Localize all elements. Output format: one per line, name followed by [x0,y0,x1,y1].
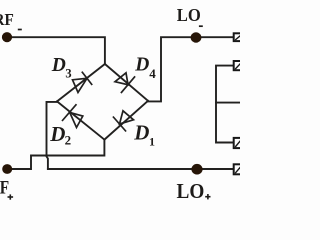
diode D3 (upper-left edge) [73,72,93,93]
wire RF- : dot to corner to diamond top vertex [7,37,105,64]
wire: left vertex stub down across to bottom wire [47,102,58,169]
wire: IF bracket to box2 and box3 [216,66,234,143]
diode D4 (upper-right edge) [115,73,135,93]
terminal box 4 (bottom right) [234,164,244,174]
terminal box 1 (top right) [234,33,244,41]
terminal box 3 [234,138,244,148]
svg-text:F: F [0,178,9,199]
svg-text:D: D [134,54,149,75]
svg-text:1: 1 [149,134,155,148]
svg-text:LO: LO [177,5,201,25]
svg-text:2: 2 [65,133,72,148]
wire: diamond edge upper-left [57,64,105,101]
svg-text:D: D [133,120,149,144]
node RF+ [2,164,12,174]
svg-text:3: 3 [65,67,71,81]
diode D2 (lower-left edge) [62,104,83,127]
node LO+ [191,164,202,175]
wire: diamond edge lower-left [57,101,104,139]
svg-text:D: D [49,122,65,146]
wire RF+ : dot, step up, across, down-feed to diamond bottom vertex [7,140,104,169]
wire: diamond edge upper-right [105,64,148,101]
diode D1 (lower-right edge) [113,111,134,132]
wire: bottom LO+ line [48,168,234,170]
svg-text:LO: LO [177,179,205,200]
node LO- [191,32,202,42]
svg-text:RF: RF [0,10,14,29]
svg-text:D: D [51,55,66,76]
wire: IF center tap [216,102,240,104]
wire LO- : right vertex stub, up, right to box1 [148,37,234,101]
wire: diamond edge lower-right [104,101,148,140]
terminal box 2 [234,61,244,70]
svg-text:4: 4 [149,66,156,81]
node RF- [2,32,12,42]
